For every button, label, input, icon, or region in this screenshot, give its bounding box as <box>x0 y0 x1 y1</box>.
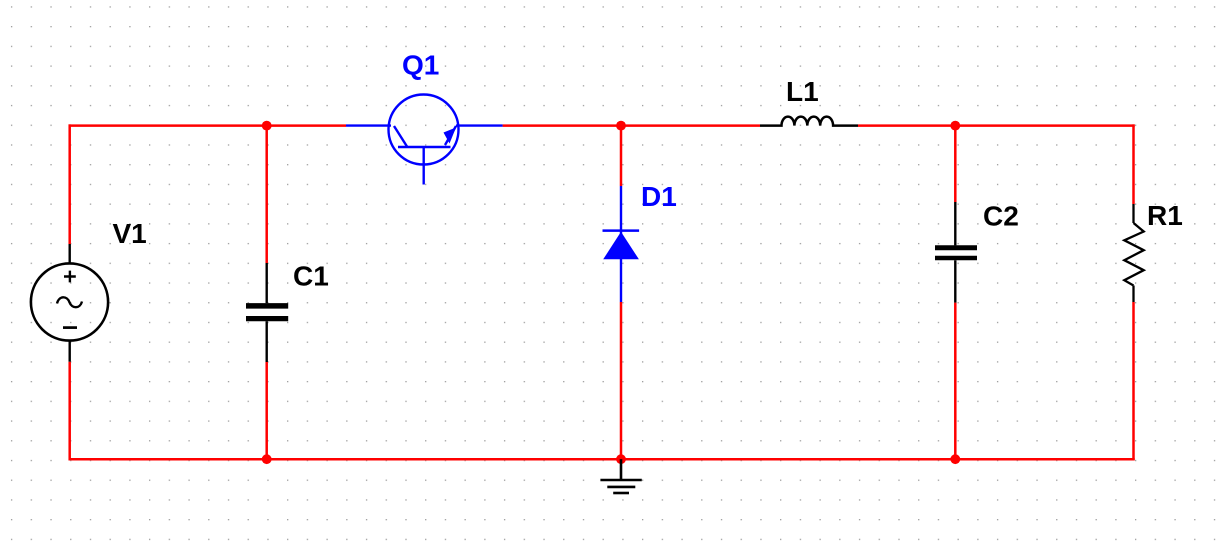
wire C1 branch upper red <box>265 126 268 263</box>
transistor Q1 arrow <box>444 128 457 144</box>
wire right rail lower red <box>1132 302 1135 460</box>
wire C2 branch upper red <box>954 126 957 202</box>
svg-text:Q1: Q1 <box>402 49 439 80</box>
voltage source V1 <box>31 244 108 362</box>
svg-text:L1: L1 <box>786 76 819 107</box>
wire D1 branch lower red <box>620 302 623 459</box>
wire left rail lower red <box>68 362 71 461</box>
node junction dot bottom C1 <box>262 454 272 464</box>
transistor Q1 <box>346 95 503 185</box>
wire top rail red segment V1 to Q1 <box>69 124 347 127</box>
svg-text:C1: C1 <box>293 260 329 291</box>
svg-text:R1: R1 <box>1147 200 1183 231</box>
wire top rail red segment L1 to right corner <box>858 124 1135 127</box>
inductor L1 <box>760 117 858 126</box>
wire left rail upper red <box>68 124 71 244</box>
wire bottom rail red <box>69 458 1135 461</box>
node junction dot top C1 <box>262 121 272 131</box>
svg-text:V1: V1 <box>113 218 147 249</box>
node junction dot top D1 <box>616 121 626 131</box>
svg-text:D1: D1 <box>641 181 677 212</box>
wire blue emitter lead <box>346 124 391 126</box>
wire blue collector lead <box>456 124 503 126</box>
wire right rail upper red <box>1132 124 1135 204</box>
capacitor C2 <box>935 202 977 303</box>
svg-text:C2: C2 <box>983 201 1019 232</box>
resistor R1 <box>1124 204 1143 302</box>
diode D1 <box>603 186 640 302</box>
wire C1 branch lower red <box>265 362 268 459</box>
wire D1 branch upper red <box>620 126 623 186</box>
wire C2 branch lower red <box>954 303 957 460</box>
wire top rail red segment Q1 to L1 <box>503 124 760 127</box>
capacitor C1 <box>246 263 288 362</box>
diode D1 triangle <box>603 232 639 259</box>
node junction dot bottom D1/ground <box>616 454 626 464</box>
node junction dot bottom C2 <box>950 454 960 464</box>
node junction dot top C2 <box>950 121 960 131</box>
ground <box>600 459 641 493</box>
